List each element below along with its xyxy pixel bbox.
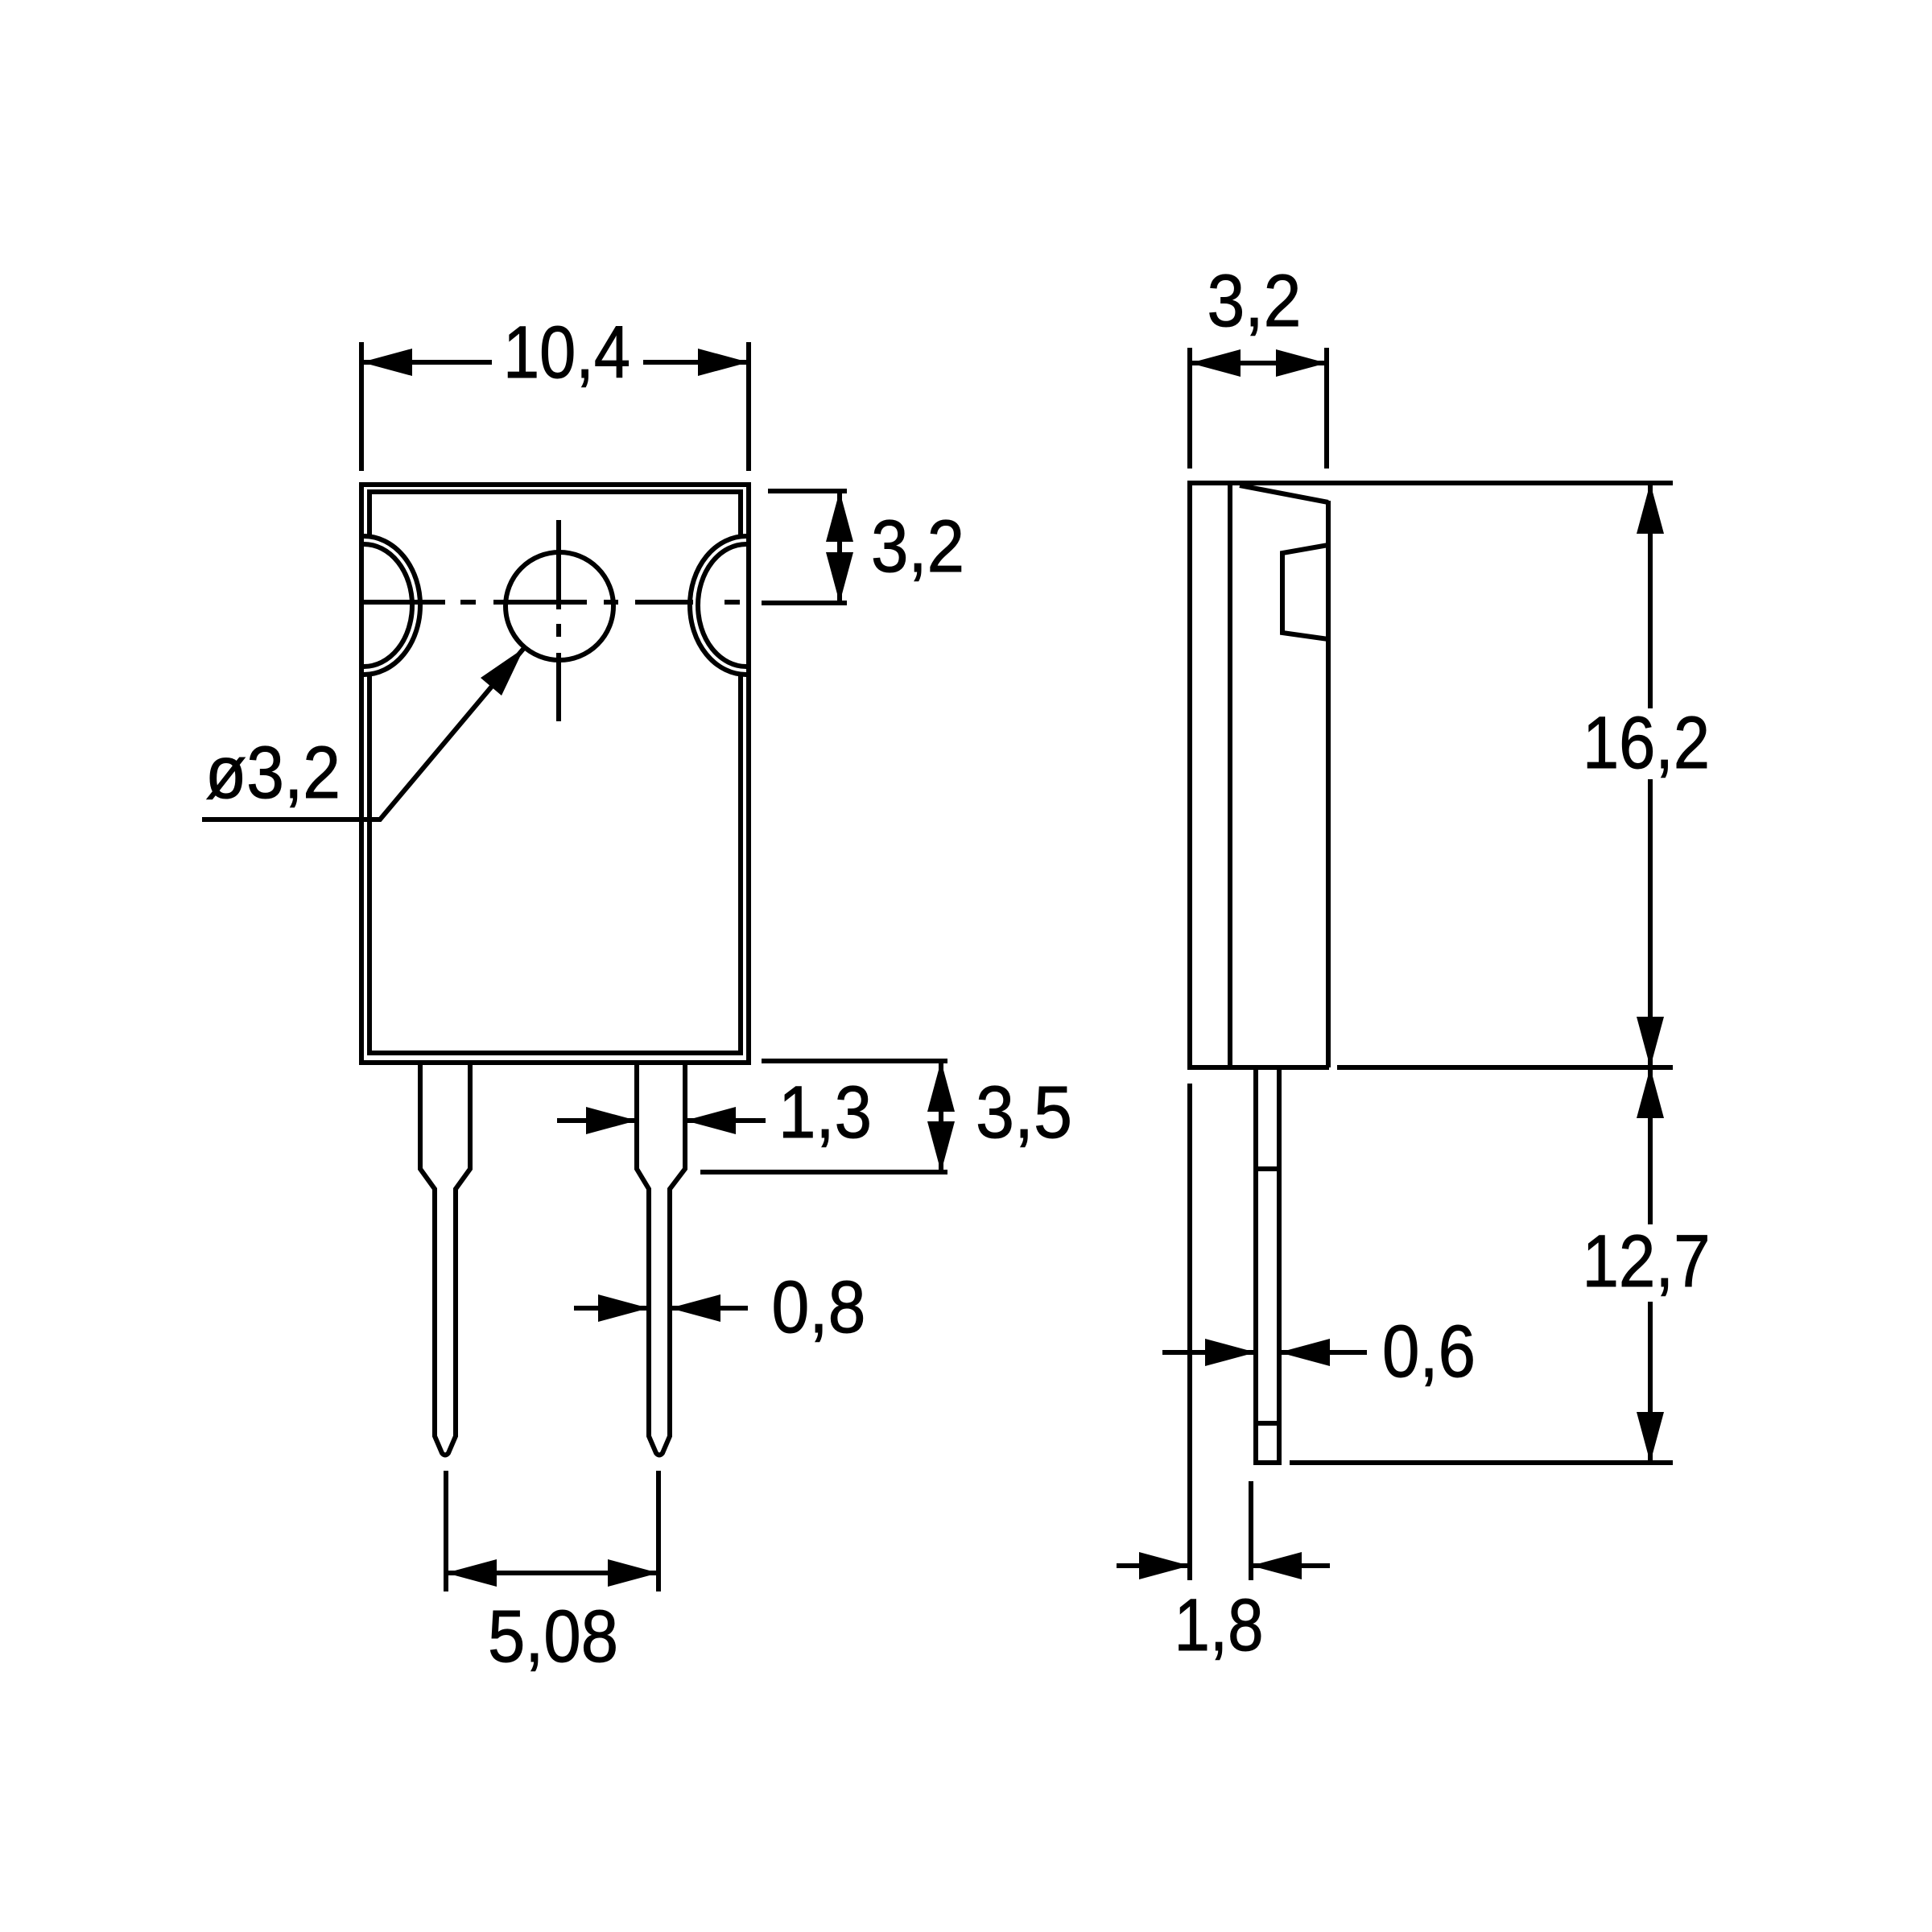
svg-text:5,08: 5,08 [488,1596,618,1678]
arrowhead 0,8 right [670,1294,720,1322]
dim 10,4 left extension line [359,342,364,471]
arrowhead 12,7 down [1637,1412,1664,1463]
side view lead right edge [1277,1067,1282,1463]
right notch outer arc [690,536,746,675]
side view boss step [1282,545,1328,639]
arrowhead 10,4 left [361,349,412,376]
dim 0,6 left dimension line [1162,1350,1256,1355]
body inner contour top [369,492,741,538]
side view back face [1187,482,1192,1067]
dim 0,8 left dimension line [574,1306,649,1311]
dim 16,2 dimension line [1648,483,1653,1067]
svg-text:3,2: 3,2 [1207,260,1302,342]
dim 3,2 side right extension line [1324,348,1329,469]
dim 5,08 right extension line [656,1471,661,1591]
dim 1,8 right dimension line [1251,1563,1330,1568]
svg-text:16,2: 16,2 [1583,702,1710,784]
dim 5,08 dimension line [446,1571,658,1575]
arrowhead 16,2 up [1637,483,1664,534]
arrowhead 3,2 side right [1276,349,1327,377]
dim 0,8 right dimension line [670,1306,748,1311]
side view lead bottom edge [1253,1460,1282,1465]
dim 1,8 right extension line [1249,1481,1253,1580]
arrowhead 16,2 down [1637,1017,1664,1067]
svg-text:0,6: 0,6 [1382,1311,1476,1393]
dim 12,7 bottom extension line [1290,1460,1673,1465]
dim 3,5 dimension line [939,1061,943,1172]
dim 1,3 right dimension line [685,1118,766,1123]
arrowhead 3,5 up [927,1061,955,1112]
dim 1,8 left extension line [1187,1084,1192,1580]
pin 1 outline [420,1064,470,1455]
arrowhead 12,7 up [1637,1067,1664,1118]
side view lead left edge [1253,1067,1258,1463]
arrowhead 3,2 side left [1190,349,1241,377]
side view tab bottom edge [1187,1065,1329,1070]
arrowhead 1,8 right [1251,1552,1302,1579]
right notch inner arc [698,544,746,667]
arrowhead 0,6 right [1279,1339,1330,1366]
leader line hole diameter [202,648,524,819]
dim 12,7 top extension line [1337,1065,1673,1070]
svg-text:1,3: 1,3 [778,1071,872,1154]
arrowhead 0,6 left [1205,1339,1256,1366]
dim 3,5 top extension line [762,1059,947,1063]
svg-text:3,2: 3,2 [871,506,964,588]
arrowhead 0,8 left [598,1294,649,1322]
side view lead upper tick [1256,1166,1279,1171]
hole vertical centerline [556,520,561,721]
arrowhead 1,3 left [586,1107,637,1134]
arrowhead leader [481,648,524,696]
body inner contour bottom [369,673,741,1053]
arrowhead 1,8 left [1139,1552,1190,1579]
dim 3,5 bottom extension line [700,1170,947,1174]
arrowhead 3,2 hole down [826,552,853,603]
arrowhead 5,08 right [608,1559,658,1587]
side view top chamfer [1240,485,1328,502]
pin 2 outline [637,1064,685,1455]
dim 3,2 side dimension line [1190,361,1327,365]
dim 3,2 side left extension line [1187,348,1192,469]
svg-text:0,8: 0,8 [772,1266,866,1348]
mounting hole [506,552,613,660]
arrowhead 3,5 down [927,1121,955,1172]
side view lead lower tick [1256,1421,1279,1426]
svg-text:10,4: 10,4 [503,312,630,394]
dim 12,7 dimension line [1648,1067,1653,1463]
arrowhead 5,08 left [446,1559,497,1587]
body outline front view (outer) [361,485,749,1063]
horizontal centerline [359,600,740,605]
arrowhead 3,2 hole up [826,491,853,542]
dim 1,3 left dimension line [557,1118,637,1123]
left notch outer arc [364,536,420,675]
svg-text:12,7: 12,7 [1583,1220,1711,1302]
svg-text:ø3,2: ø3,2 [205,732,341,814]
dim 3,2 hole bottom extension line [762,601,847,605]
dim 10,4 right extension line [746,342,751,471]
side view top edge and 16,2 extension [1187,481,1673,485]
dim 1,8 left dimension line [1117,1563,1190,1568]
dim 5,08 left extension line [444,1471,448,1591]
svg-text:3,5: 3,5 [976,1071,1072,1154]
side view body front face [1326,501,1331,1067]
arrowhead 10,4 right [698,349,749,376]
svg-text:1,8: 1,8 [1174,1584,1264,1666]
left notch inner arc [364,544,412,667]
dim 3,2 hole top extension line [768,489,847,493]
dim 10,4 dimension line [361,360,749,365]
dim 3,2 hole dimension line [837,491,842,603]
dim 0,6 right dimension line [1279,1350,1367,1355]
arrowhead 1,3 right [685,1107,736,1134]
side view tab front face [1228,485,1232,1067]
